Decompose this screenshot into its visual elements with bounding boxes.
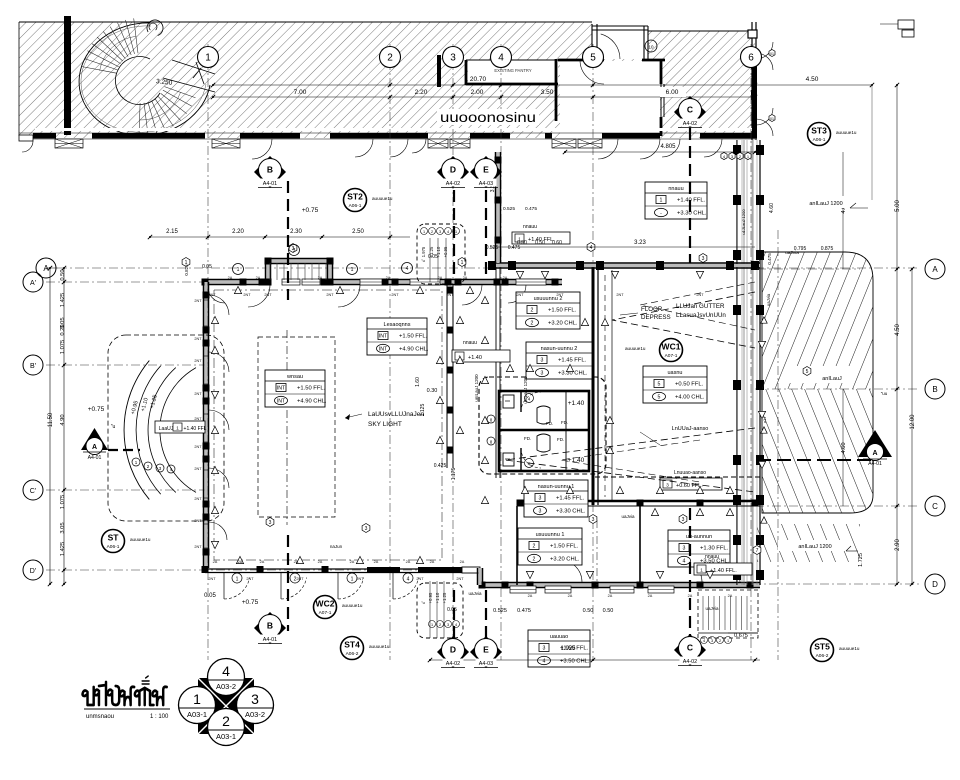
svg-text:+0.75: +0.75: [302, 207, 319, 214]
svg-text:anILauJ 1200: anILauJ 1200: [798, 544, 831, 550]
svg-text:ST3: ST3: [811, 126, 827, 136]
svg-text:0.825: 0.825: [184, 264, 189, 276]
svg-text:0.525: 0.525: [486, 245, 499, 251]
svg-text:3.05: 3.05: [60, 522, 66, 533]
svg-text:3: 3: [450, 53, 456, 64]
svg-text:2: 2: [533, 544, 536, 550]
svg-text:unILauJ 1200: unILauJ 1200: [523, 376, 528, 404]
svg-text:anILauJ 1200: anILauJ 1200: [809, 201, 842, 207]
svg-text:2A: 2A: [528, 594, 533, 598]
svg-text:+0.95: +0.95: [443, 246, 448, 257]
svg-text:+3.20 CHL.: +3.20 CHL.: [548, 321, 578, 327]
svg-text:0.60: 0.60: [552, 240, 562, 246]
svg-text:auuuue1u: auuuue1u: [130, 537, 151, 542]
svg-text:+1.50 FFL.: +1.50 FFL.: [548, 308, 577, 314]
svg-text:3: 3: [682, 517, 685, 523]
svg-text:4.90: 4.90: [60, 414, 66, 425]
svg-text:3: 3: [541, 358, 544, 364]
svg-text:nnauu: nnauu: [668, 186, 683, 192]
svg-text:2A: 2A: [438, 276, 443, 280]
svg-text:1.975: 1.975: [421, 246, 426, 257]
svg-text:+0.50 FFL.: +0.50 FFL.: [675, 382, 704, 388]
svg-text:1: 1: [205, 53, 211, 64]
svg-text:2NT: 2NT: [194, 497, 202, 501]
svg-text:10: 10: [648, 45, 654, 50]
svg-text:4: 4: [703, 639, 705, 643]
svg-text:A: A: [43, 264, 49, 273]
svg-text:1.60: 1.60: [415, 377, 421, 387]
svg-text:2A: 2A: [608, 594, 613, 598]
svg-text:u1J: u1J: [762, 417, 767, 423]
svg-text:INT: INT: [379, 347, 388, 353]
svg-text:4: 4: [222, 663, 230, 679]
svg-text:FLOOR: FLOOR: [641, 306, 663, 313]
svg-text:B: B: [267, 621, 273, 631]
svg-text:C: C: [932, 502, 938, 511]
svg-text:C: C: [687, 105, 693, 115]
svg-text:+0.95: +0.95: [428, 592, 433, 603]
svg-text:0.875: 0.875: [821, 246, 834, 252]
svg-text:2NT: 2NT: [264, 293, 272, 297]
svg-text:A03-1: A03-1: [187, 710, 207, 719]
svg-text:2.90: 2.90: [895, 539, 901, 551]
svg-text:0.05: 0.05: [202, 264, 212, 270]
svg-text:0.525: 0.525: [493, 608, 507, 614]
svg-text:3: 3: [541, 371, 544, 377]
svg-text:A': A': [30, 280, 36, 287]
svg-text:2NT: 2NT: [194, 337, 202, 341]
svg-text:0.50: 0.50: [603, 608, 614, 614]
svg-text:2NT: 2NT: [208, 577, 216, 581]
svg-text:naJun: naJun: [330, 544, 343, 549]
svg-text:Lnuuao-aanso: Lnuuao-aanso: [674, 470, 706, 476]
svg-text:3: 3: [293, 248, 296, 254]
svg-text:2NT: 2NT: [416, 577, 424, 581]
svg-text:+1.45 FFL.: +1.45 FFL.: [556, 496, 585, 502]
svg-text:3: 3: [539, 509, 542, 515]
svg-text:A: A: [872, 450, 877, 457]
svg-text:0.05: 0.05: [204, 593, 216, 599]
svg-text:+1.40: +1.40: [468, 355, 482, 361]
svg-text:2NT: 2NT: [194, 467, 202, 471]
svg-text:5: 5: [658, 382, 661, 388]
svg-text:D': D': [30, 568, 36, 575]
svg-text:0.475: 0.475: [508, 245, 521, 251]
svg-text:2: 2: [531, 321, 534, 327]
svg-text:uaJvia: uaJvia: [468, 591, 482, 596]
svg-text:0.05: 0.05: [447, 607, 457, 613]
svg-text:2A: 2A: [430, 560, 435, 564]
svg-text:2A: 2A: [318, 276, 323, 280]
svg-text:4: 4: [498, 53, 504, 64]
svg-text:anILauJ: anILauJ: [822, 376, 842, 382]
svg-text:2: 2: [431, 230, 433, 234]
svg-text:auuuue1u: auuuue1u: [372, 196, 393, 201]
svg-text:2A: 2A: [318, 560, 323, 564]
svg-text:1.925: 1.925: [560, 646, 576, 652]
svg-text:+1.50 FFL.: +1.50 FFL.: [297, 386, 326, 392]
svg-text:-: -: [660, 211, 662, 217]
svg-text:2NT: 2NT: [391, 293, 399, 297]
svg-text:2: 2: [439, 623, 441, 627]
svg-text:LaaUJ: LaaUJ: [159, 426, 174, 432]
svg-text:2NT: 2NT: [246, 577, 254, 581]
svg-text:ST4: ST4: [344, 640, 360, 650]
svg-text:2NT: 2NT: [208, 293, 216, 297]
svg-text:5: 5: [658, 395, 661, 401]
svg-text:"u: "u: [421, 258, 425, 263]
svg-text:7.00: 7.00: [294, 89, 307, 96]
svg-text:2A: 2A: [238, 560, 243, 564]
svg-text:+1.25: +1.25: [442, 592, 447, 603]
svg-text:1.425: 1.425: [60, 542, 66, 557]
svg-text:2.125: 2.125: [420, 404, 426, 417]
svg-text:nnauu: nnauu: [463, 340, 477, 346]
svg-text:+3.30 CHL.: +3.30 CHL.: [556, 509, 586, 515]
svg-text:2NT: 2NT: [243, 293, 251, 297]
svg-text:2A: 2A: [460, 560, 465, 564]
svg-text:FD.: FD.: [546, 421, 553, 426]
svg-text:A4-03: A4-03: [479, 181, 493, 187]
svg-text:0.475: 0.475: [767, 253, 772, 265]
svg-text:LLasuaJsvUnUUn: LLasuaJsvUnUUn: [676, 312, 726, 319]
svg-text:1: 1: [193, 691, 201, 707]
svg-text:auuuue1u: auuuue1u: [342, 603, 363, 608]
svg-text:2NT: 2NT: [696, 293, 704, 297]
svg-text:2NT: 2NT: [296, 577, 304, 581]
svg-text:A03-2: A03-2: [245, 710, 265, 719]
svg-text:Lesaoqnns: Lesaoqnns: [384, 322, 411, 328]
svg-text:0.475: 0.475: [525, 206, 537, 212]
svg-text:2A: 2A: [260, 560, 265, 564]
svg-text:D: D: [932, 580, 938, 589]
svg-text:2NT: 2NT: [516, 293, 524, 297]
svg-text:A07-1: A07-1: [665, 353, 678, 359]
svg-text:auuuue1u: auuuue1u: [369, 644, 390, 649]
svg-text:4: 4: [455, 623, 457, 627]
svg-text:2NT: 2NT: [194, 359, 202, 363]
svg-text:+4.90 CHL.: +4.90 CHL.: [399, 347, 429, 353]
svg-text:2A: 2A: [256, 276, 261, 280]
svg-text:1: 1: [660, 198, 663, 204]
svg-text:1: 1: [455, 230, 457, 234]
svg-text:+0.75: +0.75: [88, 406, 105, 413]
svg-text:+1.30 FFL.: +1.30 FFL.: [700, 546, 729, 552]
svg-text:+1.45 FFL.: +1.45 FFL.: [558, 358, 587, 364]
svg-text:wnsau: wnsau: [286, 374, 303, 380]
svg-text:A06-2: A06-2: [816, 653, 829, 659]
svg-text:+4.90 CHL.: +4.90 CHL.: [297, 399, 327, 405]
svg-text:4.50: 4.50: [806, 76, 819, 83]
svg-text:INT: INT: [277, 399, 286, 405]
svg-text:4: 4: [406, 266, 409, 272]
svg-text:0.475: 0.475: [517, 608, 531, 614]
svg-text:A4-03: A4-03: [479, 661, 493, 667]
svg-text:3: 3: [269, 520, 272, 526]
svg-text:DEPRESS: DEPRESS: [641, 314, 671, 321]
svg-text:2: 2: [533, 557, 536, 563]
svg-text:auuuue1u: auuuue1u: [625, 346, 646, 351]
svg-text:A03-2: A03-2: [216, 682, 236, 691]
svg-text:2A: 2A: [568, 594, 573, 598]
svg-text:"u: "u: [421, 600, 425, 605]
svg-text:3: 3: [592, 517, 595, 523]
svg-text:LaUUsvLLUJnaJen: LaUUsvLLUJnaJen: [368, 411, 424, 418]
svg-text:1: 1: [237, 267, 240, 273]
svg-text:FD.: FD.: [524, 436, 531, 441]
svg-text:3: 3: [683, 546, 686, 552]
svg-text:1: 1: [351, 577, 354, 583]
svg-text:+1.10: +1.10: [435, 592, 440, 603]
svg-text:5: 5: [590, 53, 596, 64]
svg-text:2.15: 2.15: [166, 229, 178, 235]
svg-text:+0.75: +0.75: [242, 599, 259, 606]
svg-text:INT: INT: [277, 386, 286, 392]
svg-text:ST: ST: [108, 533, 120, 543]
svg-text:FD.: FD.: [561, 420, 568, 425]
svg-text:1: 1: [461, 260, 464, 266]
svg-text:nasun-uunnu 2: nasun-uunnu 2: [541, 346, 578, 352]
svg-text:2: 2: [387, 53, 393, 64]
svg-text:1 : 100: 1 : 100: [150, 714, 169, 720]
svg-text:0.50: 0.50: [535, 240, 545, 246]
svg-text:2NT: 2NT: [194, 392, 202, 396]
svg-text:1.075: 1.075: [60, 340, 66, 355]
svg-text:3: 3: [251, 691, 259, 707]
svg-text:2.50: 2.50: [352, 229, 364, 235]
svg-text:uasnu: uasnu: [668, 370, 683, 376]
svg-text:0.30: 0.30: [427, 388, 438, 394]
svg-text:A4-01: A4-01: [868, 461, 882, 467]
svg-text:FD.: FD.: [557, 437, 564, 442]
svg-text:A4-02: A4-02: [446, 181, 460, 187]
svg-text:WC1: WC1: [662, 342, 681, 352]
svg-text:E: E: [483, 165, 489, 175]
svg-text:2NT: 2NT: [616, 293, 624, 297]
svg-text:+1.50 FFL.: +1.50 FFL.: [550, 544, 579, 550]
svg-text:+1.40 FFL.: +1.40 FFL.: [677, 198, 706, 204]
svg-text:2A: 2A: [386, 276, 391, 280]
svg-text:B': B': [30, 363, 36, 370]
svg-text:2A: 2A: [406, 560, 411, 564]
svg-text:A06-2: A06-2: [346, 651, 359, 657]
svg-text:A06-1: A06-1: [349, 203, 362, 209]
svg-text:A07-1: A07-1: [319, 610, 332, 616]
svg-text:ST2: ST2: [347, 192, 363, 202]
svg-text:A: A: [932, 265, 938, 274]
svg-text:2NT: 2NT: [356, 577, 364, 581]
svg-text:3: 3: [539, 496, 542, 502]
svg-text:2A: 2A: [463, 276, 468, 280]
svg-text:A4-02: A4-02: [446, 661, 460, 667]
svg-text:A06-1: A06-1: [107, 544, 120, 550]
svg-text:2NT: 2NT: [194, 545, 202, 549]
svg-text:B: B: [267, 165, 273, 175]
svg-text:A4-01: A4-01: [263, 181, 277, 187]
svg-text:7: 7: [756, 548, 759, 554]
svg-text:+3.20 CHL.: +3.20 CHL.: [550, 557, 580, 563]
svg-text:2.20: 2.20: [232, 229, 244, 235]
svg-text:0.50: 0.50: [60, 269, 66, 280]
svg-text:+1.40: +1.40: [568, 457, 585, 464]
svg-text:INT: INT: [379, 334, 388, 340]
svg-text:EXISTING PANTRY: EXISTING PANTRY: [494, 68, 532, 73]
svg-text:2A: 2A: [213, 560, 218, 564]
svg-text:2NT: 2NT: [456, 577, 464, 581]
svg-text:2NT: 2NT: [556, 293, 564, 297]
svg-text:D: D: [450, 645, 456, 655]
svg-text:5: 5: [806, 369, 809, 375]
svg-text:nnauu: nnauu: [523, 224, 537, 230]
svg-text:+3.30 CHL.: +3.30 CHL.: [677, 211, 707, 217]
svg-text:2: 2: [719, 639, 721, 643]
svg-text:2.00: 2.00: [471, 89, 484, 96]
svg-text:4.60: 4.60: [769, 203, 775, 213]
svg-text:3.50: 3.50: [541, 89, 554, 96]
svg-text:unmsnaou: unmsnaou: [86, 714, 114, 720]
svg-text:2A: 2A: [350, 560, 355, 564]
svg-text:1: 1: [727, 639, 729, 643]
svg-text:3: 3: [543, 646, 546, 652]
svg-text:2A: 2A: [688, 594, 693, 598]
svg-text:unILauJ 1200: unILauJ 1200: [474, 374, 479, 402]
svg-text:1: 1: [431, 623, 433, 627]
svg-text:A: A: [92, 444, 97, 451]
svg-text:A4-02: A4-02: [683, 121, 697, 127]
svg-text:C': C': [30, 488, 36, 495]
svg-text:2A: 2A: [228, 276, 233, 280]
svg-text:6.00: 6.00: [666, 89, 679, 96]
svg-text:C: C: [687, 643, 693, 653]
svg-text:3: 3: [439, 230, 441, 234]
svg-text:01: 01: [770, 117, 774, 121]
svg-text:nnauu: nnauu: [705, 554, 719, 560]
svg-text:usuuunnu 1: usuuunnu 1: [536, 532, 565, 538]
svg-text:1.175: 1.175: [451, 468, 457, 481]
svg-text:2NT: 2NT: [446, 293, 454, 297]
svg-text:SKY LIGHT: SKY LIGHT: [368, 421, 402, 428]
svg-text:+4.00 CHL.: +4.00 CHL.: [675, 395, 705, 401]
svg-text:2NT: 2NT: [194, 519, 202, 523]
svg-text:B: B: [932, 385, 937, 394]
svg-text:1: 1: [351, 267, 354, 273]
svg-text:11.50: 11.50: [48, 412, 54, 427]
svg-text:uaJvia: uaJvia: [705, 606, 719, 611]
svg-text:4: 4: [543, 659, 546, 665]
svg-text:2NT: 2NT: [194, 445, 202, 449]
svg-text:3: 3: [447, 623, 449, 627]
svg-text:4.805: 4.805: [660, 144, 676, 150]
svg-text:2A: 2A: [648, 594, 653, 598]
svg-text:A4-01: A4-01: [263, 637, 277, 643]
svg-text:+1.40: +1.40: [568, 400, 585, 407]
svg-text:"u: "u: [111, 424, 116, 430]
svg-text:2NT: 2NT: [194, 417, 202, 421]
svg-text:u1JLauJ 1200: u1JLauJ 1200: [741, 209, 746, 235]
svg-text:A03-1: A03-1: [216, 732, 236, 741]
svg-text:2NT: 2NT: [326, 293, 334, 297]
svg-text:A4-01: A4-01: [88, 455, 102, 461]
svg-text:1.075: 1.075: [60, 495, 66, 510]
svg-text:LLUJan GUTTER: LLUJan GUTTER: [676, 303, 725, 310]
svg-text:D: D: [450, 165, 456, 175]
svg-text:1.425: 1.425: [60, 293, 66, 308]
svg-text:3: 3: [365, 526, 368, 532]
svg-text:12.00: 12.00: [910, 414, 916, 430]
svg-text:+1.10: +1.10: [436, 246, 441, 257]
svg-text:4: 4: [407, 577, 410, 583]
svg-text:4: 4: [590, 245, 593, 251]
svg-text:A06-1: A06-1: [813, 137, 826, 143]
svg-text:6: 6: [748, 53, 754, 64]
svg-text:"uu: "uu: [881, 391, 888, 396]
svg-text:uauuao: uauuao: [550, 634, 568, 640]
svg-text:01: 01: [770, 52, 774, 56]
svg-text:A4-02: A4-02: [683, 659, 697, 665]
svg-text:auuuue1u: auuuue1u: [839, 646, 860, 651]
svg-text:2A: 2A: [294, 560, 299, 564]
svg-text:WC2: WC2: [316, 599, 335, 609]
svg-text:3: 3: [711, 639, 713, 643]
svg-text:auuuue1u: auuuue1u: [836, 130, 857, 135]
svg-text:4: 4: [447, 230, 449, 234]
svg-text:2: 2: [531, 308, 534, 314]
svg-text:0.525: 0.525: [503, 206, 515, 212]
svg-text:3: 3: [702, 256, 705, 262]
svg-text:4.50: 4.50: [895, 324, 901, 336]
svg-text:20.70: 20.70: [470, 76, 487, 83]
svg-text:2: 2: [222, 713, 230, 729]
svg-text:0.50: 0.50: [583, 608, 594, 614]
svg-text:2.30: 2.30: [290, 229, 302, 235]
svg-text:uaJvia: uaJvia: [621, 514, 635, 519]
svg-text:+1.40 FFL.: +1.40 FFL.: [710, 568, 737, 574]
svg-text:0.425: 0.425: [434, 463, 447, 469]
svg-text:0.20: 0.20: [60, 324, 66, 335]
svg-text:uaJvia: uaJvia: [766, 293, 771, 306]
svg-text:+3.50 CHL.: +3.50 CHL.: [560, 659, 590, 665]
svg-text:1: 1: [236, 577, 239, 583]
svg-text:uaJvia: uaJvia: [785, 250, 799, 256]
svg-text:1: 1: [423, 230, 425, 234]
svg-text:uuooonosinu: uuooonosinu: [440, 109, 536, 125]
svg-text:2A: 2A: [374, 560, 379, 564]
svg-text:E: E: [483, 645, 489, 655]
svg-text:ST5: ST5: [814, 642, 830, 652]
svg-text:2A: 2A: [503, 276, 508, 280]
svg-text:5.00: 5.00: [895, 200, 901, 212]
svg-text:3.23: 3.23: [634, 240, 646, 246]
svg-text:4: 4: [683, 559, 686, 565]
svg-text:2.20: 2.20: [415, 89, 428, 96]
svg-text:LnUUaJ-aanso: LnUUaJ-aanso: [672, 426, 709, 432]
svg-text:+1.40 FFL: +1.40 FFL: [184, 426, 207, 432]
svg-text:2NT: 2NT: [194, 299, 202, 303]
svg-text:+1.50 FFL.: +1.50 FFL.: [399, 334, 428, 340]
